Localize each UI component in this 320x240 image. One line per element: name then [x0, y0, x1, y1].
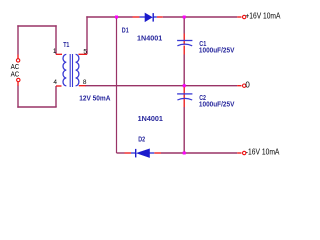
pin red stub -16V terminal [237, 152, 241, 154]
diode D2 cathode lead [131, 152, 136, 154]
diode D1 anode lead [140, 16, 146, 18]
wire C column C1 to zero rail [183, 55, 185, 86]
pin red stub T1 pin1 [56, 53, 62, 55]
svg-text:5: 5 [83, 48, 87, 55]
wire top rail right of D1 [163, 16, 238, 18]
wire bottom-left rail [17, 106, 56, 108]
junction dot top rail x116 [115, 16, 118, 19]
transformer T1 core line left [69, 54, 71, 87]
diode D2 triangle [137, 149, 150, 158]
wire bottom rail left of D2 [117, 152, 125, 154]
capacitor C1 straight plate [177, 40, 192, 42]
diode D2 anode lead [150, 152, 155, 154]
junction dot bottom rail x184 [183, 152, 186, 155]
wire pin4 drop [55, 86, 57, 107]
wire top-left AC rail [17, 25, 56, 27]
junction dot zero rail x184 [183, 84, 186, 87]
svg-text:4: 4 [53, 79, 57, 86]
capacitor C2 curved plate [177, 98, 192, 100]
terminal circle AC 1 [16, 59, 19, 62]
capacitor C2 straight plate [177, 93, 192, 95]
terminal circle +16V [243, 15, 246, 18]
wire pin5 riser [86, 16, 88, 54]
pin red stub C2 top [183, 87, 185, 100]
svg-text:D2: D2 [138, 136, 145, 143]
wire doubler vertical [116, 17, 118, 153]
svg-text:1N4001: 1N4001 [137, 36, 162, 43]
pin red stub T1 pin4 [56, 85, 62, 87]
transformer T1 secondary winding [76, 54, 79, 85]
pin red stub 0 terminal [237, 85, 241, 87]
svg-text:T1: T1 [63, 42, 69, 49]
pin red stub AC terminal 2 [17, 82, 19, 86]
diode D2 cathode bar [135, 149, 137, 158]
pin red stub C1 top [183, 34, 185, 45]
transformer T1 primary winding [63, 54, 66, 85]
svg-text:1N4001: 1N4001 [138, 116, 163, 123]
svg-text:8: 8 [83, 79, 87, 86]
pin red stub D1 cathode [157, 16, 163, 18]
svg-text:0: 0 [245, 81, 250, 90]
svg-text:+16V 10mA: +16V 10mA [245, 12, 281, 21]
pin red stub +16V terminal [237, 16, 241, 18]
svg-text:-16V 10mA: -16V 10mA [246, 147, 280, 156]
wire bottom rail right of D2 [161, 152, 237, 154]
transformer T1 core line right [72, 54, 74, 87]
pin red stub D2 anode [154, 152, 161, 154]
wire C column below C2 [183, 107, 185, 153]
terminal circle -16V [243, 151, 246, 154]
pin red stub D1 anode [133, 16, 140, 18]
wire top rail left of D1 [86, 16, 132, 18]
pin red stub D2 cathode [125, 152, 132, 154]
junction dot top rail x184 [183, 16, 186, 19]
wire left lower vertical from AC terminal 2 [17, 86, 19, 108]
svg-text:12V 50mA: 12V 50mA [79, 96, 110, 103]
diode D1 cathode bar [152, 13, 154, 22]
pin red stub C1 bottom [183, 46, 185, 55]
pin red stub AC terminal 1 [17, 55, 19, 59]
capacitor C1 curved plate [177, 44, 192, 46]
terminal circle 0 [243, 84, 246, 87]
svg-text:1000uF/25V: 1000uF/25V [199, 101, 235, 108]
pin red stub T1 pin5 [79, 53, 88, 55]
svg-text:D1: D1 [122, 27, 129, 34]
wire zero rail [85, 85, 237, 87]
pin red stub T1 pin8 [79, 85, 86, 87]
diode D1 cathode lead [153, 16, 157, 18]
pin red stub C2 bottom [183, 99, 185, 107]
svg-text:AC: AC [11, 70, 20, 79]
wire left upper vertical to AC terminal 1 [17, 25, 19, 54]
diode D1 triangle [145, 13, 152, 22]
terminal circle AC 2 [17, 78, 20, 81]
svg-text:1000uF/25V: 1000uF/25V [199, 48, 235, 55]
wire C column above C1 [183, 17, 185, 34]
wire pin1 drop [55, 25, 57, 54]
svg-text:1: 1 [53, 48, 57, 55]
